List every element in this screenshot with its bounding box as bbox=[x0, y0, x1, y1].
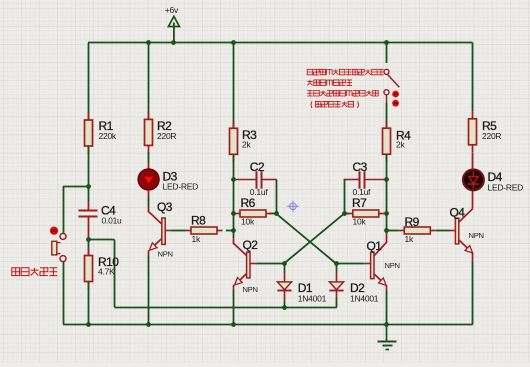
svg-text:C2: C2 bbox=[250, 160, 265, 174]
wire R4 down through nodes bbox=[386, 154, 388, 232]
wire Q2 emitter to bottom bus bbox=[233, 290, 235, 324]
svg-text:Q1: Q1 bbox=[367, 239, 383, 253]
svg-text:LED-RED: LED-RED bbox=[163, 182, 199, 192]
wire Q1 base to node bbox=[336, 263, 364, 265]
wire bus to switch bbox=[386, 43, 388, 63]
resistor R2 bbox=[145, 111, 177, 153]
wire Q3 emitter to bottom bus bbox=[148, 256, 150, 325]
junction D1 / trigger bus bbox=[282, 305, 287, 310]
junction R9 left bbox=[384, 228, 389, 233]
diode D1 bbox=[277, 264, 326, 308]
svg-text:NPN: NPN bbox=[385, 261, 400, 270]
wire C3 left down to R7 left bbox=[344, 180, 346, 214]
junction top bus / switch bbox=[384, 40, 389, 45]
svg-text:2k: 2k bbox=[242, 140, 251, 150]
svg-text:1N4001: 1N4001 bbox=[350, 294, 379, 304]
wire bottom ground bus bbox=[63, 324, 473, 326]
wire switch to R4 bbox=[386, 103, 388, 128]
capacitor C2 bbox=[236, 160, 277, 197]
resistor R7 bbox=[347, 196, 384, 227]
svg-text:C3: C3 bbox=[353, 160, 368, 174]
svg-text:R9: R9 bbox=[405, 215, 420, 229]
wire cross R6-right to Q1 base node bbox=[276, 214, 336, 264]
svg-text:NPN: NPN bbox=[469, 231, 484, 240]
wire C2 right down to R6 right bbox=[276, 180, 278, 214]
button actuator (red) bbox=[50, 227, 58, 235]
junction top bus / R3 bbox=[231, 40, 236, 45]
transistor Q2 (NPN) bbox=[234, 238, 259, 294]
wire trigger bus bbox=[114, 307, 337, 309]
wire R7 left pin to junction bbox=[344, 213, 349, 215]
origin crosshair marker bbox=[287, 201, 298, 212]
ground symbol bbox=[378, 324, 397, 349]
junction Q3 emitter / bottom bus bbox=[146, 322, 151, 327]
wire trigger branch horizontal bbox=[88, 239, 114, 241]
transistor Q4 (NPN, mirrored) bbox=[449, 190, 484, 262]
svg-text:2k: 2k bbox=[396, 140, 405, 150]
annotation text line2 (red) bbox=[307, 80, 313, 86]
wire R8 to node bbox=[226, 230, 234, 232]
transistor Q1 (NPN, mirrored) bbox=[364, 239, 400, 291]
junction Q1 emitter / ground bbox=[384, 322, 389, 327]
resistor R9 bbox=[399, 215, 436, 244]
junction Q2 base / D1 bbox=[282, 261, 287, 266]
svg-text:1k: 1k bbox=[192, 234, 201, 244]
label bistable switch (red) bbox=[12, 268, 20, 276]
wire C4 top pin bbox=[88, 201, 90, 211]
switch actuator dots (red) bbox=[392, 91, 399, 107]
annotation text line4 (red) bbox=[311, 101, 358, 108]
svg-text:10k: 10k bbox=[241, 217, 255, 227]
wire R2 to D3 bbox=[148, 152, 150, 163]
wire Q2 base to node bbox=[257, 263, 285, 265]
junction C4/R10/trigger bbox=[86, 237, 91, 242]
junction R10 / bottom bus bbox=[86, 322, 91, 327]
svg-text:NPN: NPN bbox=[243, 285, 258, 294]
wire Q3 collector pin bbox=[148, 207, 150, 213]
wire R10 to bottom bus bbox=[88, 282, 90, 325]
svg-text:R8: R8 bbox=[191, 214, 206, 228]
svg-text:1N4001: 1N4001 bbox=[298, 294, 327, 304]
svg-text:R7: R7 bbox=[352, 196, 367, 210]
wire D3 cathode pin bbox=[148, 190, 150, 197]
wire Q1 emitter to bottom bus bbox=[386, 291, 388, 325]
svg-text:0.01u: 0.01u bbox=[102, 216, 123, 226]
svg-text:LED-RED: LED-RED bbox=[488, 183, 524, 193]
svg-text:Q2: Q2 bbox=[243, 238, 259, 252]
resistor R1 bbox=[85, 112, 117, 154]
wire bus corner bbox=[472, 42, 474, 44]
svg-text:1k: 1k bbox=[405, 234, 414, 244]
wire R3 to Q2 collector node bbox=[233, 154, 235, 238]
wire C4 to junction bbox=[88, 217, 90, 240]
wire top +6v bus bbox=[88, 42, 473, 44]
resistor R8 bbox=[186, 214, 223, 244]
junction R1/button branch bbox=[86, 184, 91, 189]
junction C3 right bbox=[384, 177, 389, 182]
junction Q1 base / D2 bbox=[334, 261, 339, 266]
svg-text:220R: 220R bbox=[157, 131, 176, 141]
svg-text:220k: 220k bbox=[99, 131, 117, 141]
svg-text:NPN: NPN bbox=[158, 250, 173, 259]
junction top bus / power bbox=[171, 40, 176, 45]
wire Q1 collector pin bbox=[386, 233, 388, 243]
junction Q2 emitter / bottom bus bbox=[231, 322, 236, 327]
junction top bus / R2 bbox=[146, 40, 151, 45]
resistor R10 bbox=[85, 248, 120, 290]
LED D3 (lit) bbox=[138, 169, 198, 192]
wire R9 to Q4 base bbox=[436, 230, 450, 232]
power +6v symbol bbox=[165, 5, 180, 43]
resistor R4 bbox=[383, 120, 412, 162]
annotation text line3 (red) bbox=[307, 91, 313, 97]
wire junction to R10 bbox=[88, 239, 90, 255]
wire R6 right pin to junction bbox=[269, 213, 277, 215]
wire Q3 base to R8 bbox=[172, 230, 186, 232]
wire to button top contact bbox=[63, 186, 65, 233]
wire Q4 emitter down to bottom bus corner bbox=[472, 262, 474, 324]
svg-text:Q3: Q3 bbox=[157, 200, 173, 214]
push button (bistable switch) bbox=[52, 233, 66, 261]
annotation text line1 (red) bbox=[307, 69, 313, 75]
capacitor C4 bbox=[79, 204, 123, 226]
wire Q2 collector pin bbox=[233, 238, 235, 244]
wire D3 anode pin bbox=[148, 163, 150, 171]
wire bus to R2 bbox=[148, 43, 150, 120]
wire D3 to Q3 collector bbox=[148, 197, 150, 208]
wire cross R7-left to Q2 base node bbox=[284, 214, 344, 264]
wire bus to R3 bbox=[233, 43, 235, 129]
wire node to R9 bbox=[387, 230, 399, 232]
wire D4 to R5 bbox=[472, 153, 474, 169]
transistor Q3 (NPN) bbox=[149, 200, 173, 259]
resistor R6 bbox=[235, 196, 272, 227]
wire button bottom contact to bottom bus bbox=[63, 262, 65, 325]
junction C2 left bbox=[231, 177, 236, 182]
junction R8 right bbox=[231, 228, 236, 233]
resistor R5 bbox=[469, 111, 502, 153]
LED D4 (off) bbox=[463, 170, 523, 193]
wire to button bbox=[63, 186, 88, 188]
wire top bus down to R5 bbox=[472, 43, 474, 111]
junction R6 right / cross bbox=[274, 211, 279, 216]
svg-text:Q4: Q4 bbox=[450, 206, 466, 220]
diode D2 bbox=[329, 264, 378, 304]
switch SW (SPST) bbox=[384, 69, 399, 103]
junction R7 left / cross bbox=[342, 211, 347, 216]
resistor R3 bbox=[230, 120, 258, 162]
wire +6v bus to R1 bbox=[88, 43, 90, 120]
junction R6 left bbox=[231, 211, 236, 216]
junction R7 right bbox=[384, 211, 389, 216]
svg-text:R6: R6 bbox=[241, 196, 256, 210]
wire D2 to trigger bus bbox=[336, 298, 338, 307]
svg-text:220R: 220R bbox=[482, 131, 501, 141]
capacitor C3 bbox=[344, 160, 386, 197]
svg-text:+6v: +6v bbox=[165, 5, 179, 15]
wire trigger branch vertical bbox=[114, 239, 116, 307]
wire R1 to C4 bbox=[88, 146, 90, 201]
svg-text:10k: 10k bbox=[353, 217, 367, 227]
svg-text:4.7K: 4.7K bbox=[98, 267, 115, 277]
